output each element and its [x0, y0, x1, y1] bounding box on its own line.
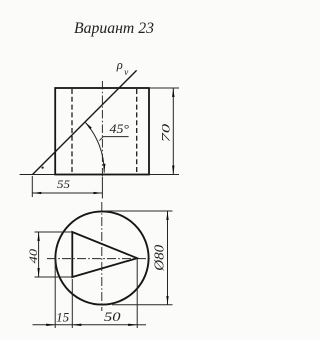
- hidden edge right (prism apex): [136, 89, 138, 174]
- dim 15 arrow left (outside): [33, 324, 56, 326]
- hidden edge left (prism): [71, 89, 73, 174]
- dim 55 extension line left: [31, 176, 33, 197]
- vertical axis: [101, 202, 103, 311]
- dim 40 line: [38, 232, 40, 277]
- svg-text:55: 55: [57, 179, 70, 191]
- prism triangle: [72, 232, 137, 277]
- svg-text:v: v: [124, 67, 128, 77]
- dim 55 extension (axis continues down): [101, 177, 103, 199]
- cylinder circle: [55, 211, 148, 304]
- dia 80 dim line: [167, 211, 169, 305]
- horizontal axis: [47, 258, 152, 260]
- dim 15/50 extension right (apex): [136, 259, 138, 328]
- 45 degree arc leader: [85, 122, 104, 173]
- top edge extension right: [149, 87, 179, 89]
- svg-text:ρ: ρ: [116, 58, 123, 72]
- 45 degree leader underline: [99, 137, 128, 141]
- dim 15/50 extension middle (triangle side): [71, 279, 73, 328]
- dim line middle segment: [55, 324, 72, 326]
- dia 80 extension top: [104, 210, 173, 212]
- dim 15/50 extension left (circle edge): [54, 260, 56, 329]
- dim 40 extension top: [35, 231, 73, 233]
- dim 55 line: [32, 192, 102, 194]
- svg-text:Вариант 23: Вариант 23: [74, 20, 154, 37]
- svg-text:50: 50: [104, 310, 121, 324]
- svg-text:40: 40: [28, 249, 40, 264]
- dim 40 extension bottom: [35, 276, 73, 278]
- cylinder outline rectangle: [55, 88, 149, 175]
- vertical center axis of front view: [101, 81, 103, 177]
- svg-text:Ø80: Ø80: [152, 244, 167, 272]
- svg-text:70: 70: [161, 123, 173, 142]
- baseline extension left: [20, 174, 56, 176]
- dim line right tail: [137, 324, 146, 326]
- cutting plane trace Pv (45 deg line): [32, 70, 136, 174]
- svg-text:15: 15: [56, 310, 69, 324]
- point dot on trace: [42, 167, 44, 169]
- dim 50 line with arrows: [72, 324, 137, 326]
- dia 80 extension bottom: [112, 304, 173, 306]
- baseline extension right: [149, 174, 179, 176]
- dim 70 line: [172, 88, 174, 175]
- svg-text:45°: 45°: [110, 122, 130, 136]
